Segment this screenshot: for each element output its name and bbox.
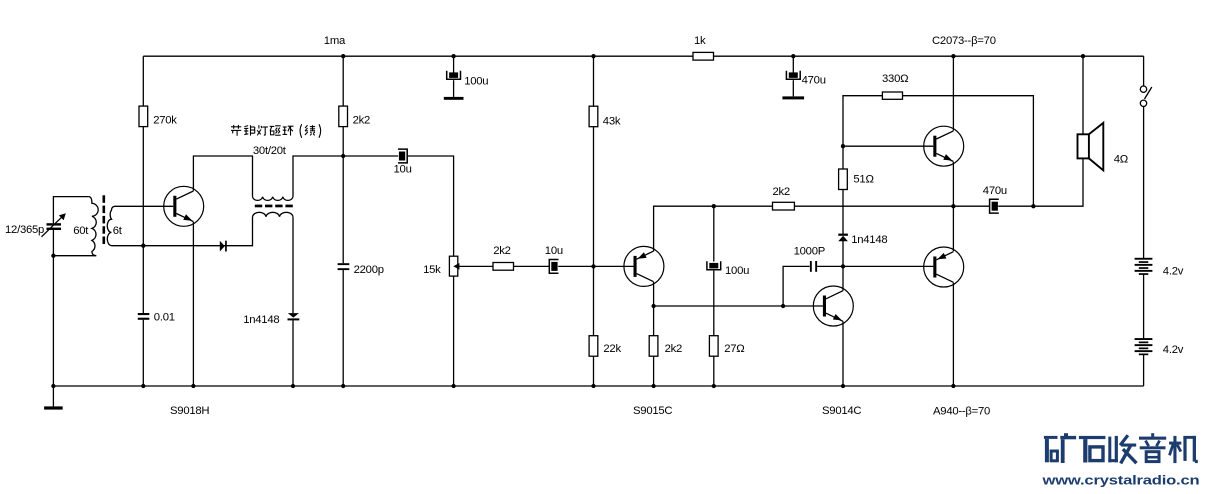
resistor 2k2 (wiper) (493, 263, 514, 271)
wire 51ohm / 1n4148 branch (842, 146, 844, 266)
node top rail / 470u (791, 54, 795, 58)
svg-text:0.01: 0.01 (154, 311, 175, 323)
inductor 6t secondary coil (107, 206, 115, 245)
wire between batteries (1143, 275, 1145, 339)
wire 330ohm feedback loop (843, 96, 1033, 207)
battery 4.2v (upper) (1135, 258, 1153, 275)
inductor 20t winding (253, 212, 294, 216)
wire S9015C emitter / 2k2 line to output node (654, 206, 990, 251)
label 1k (694, 35, 706, 47)
wire A940 base (843, 265, 933, 267)
node ground rail / S9014C emitter (841, 384, 845, 388)
wire S9014C collector up (842, 266, 844, 290)
node ground rail / 15k (451, 384, 455, 388)
label 15k (423, 264, 441, 276)
wire tank bottom loop (53, 255, 96, 257)
node driver line / 100u bypass (712, 204, 716, 208)
wire secondary bottom line (112, 217, 253, 246)
svg-text:2k2: 2k2 (353, 115, 370, 127)
node ground rail / 27ohm (712, 384, 716, 388)
node 2k2 / 10u line (341, 154, 345, 158)
wire 15k pot bottom (453, 276, 455, 386)
label 270k (153, 115, 177, 127)
svg-text:10u: 10u (394, 163, 412, 175)
wire emitter node line to S9014C base (654, 305, 823, 307)
wire 1000P branch (783, 266, 843, 306)
wire battery to bottom rail (1143, 355, 1145, 386)
wire 10u out to node (558, 265, 593, 267)
label 470u (983, 185, 1007, 197)
wire 2k2 branch / 2200p branch (342, 56, 344, 386)
resistor 330ohm (882, 92, 902, 99)
label 470u (802, 74, 826, 86)
wire 470u output to speaker (998, 158, 1083, 206)
ground symbol (main) (44, 406, 63, 409)
wire secondary top to base (115, 205, 174, 207)
label 2200p (354, 264, 384, 276)
label 4.2v (1163, 344, 1184, 356)
capacitor 0.01 (138, 313, 150, 320)
resistor 22k (589, 336, 598, 357)
watermark url (1041, 474, 1199, 488)
svg-text:270k: 270k (153, 115, 177, 127)
node ground rail / 2k2 (651, 384, 655, 388)
wire A940 collector to ground rail (952, 283, 954, 386)
label 2k2 (665, 343, 682, 355)
node 470u / 330ohm (1031, 204, 1035, 208)
svg-text:C2073--β=70: C2073--β=70 (932, 35, 996, 47)
capacitor 1000P (810, 261, 817, 272)
label 0.01 (154, 311, 175, 323)
capacitor 2200p (338, 263, 350, 270)
wire 15k wiper to 10u (457, 265, 549, 267)
svg-text:www.crystalradio.cn: www.crystalradio.cn (1041, 474, 1199, 488)
capacitor 10u (coupling) (398, 149, 407, 163)
svg-text:2k2: 2k2 (493, 245, 510, 257)
node ground rail / 2200p (341, 384, 345, 388)
svg-text:470u: 470u (983, 185, 1007, 197)
svg-text:A940--β=70: A940--β=70 (933, 405, 990, 417)
node 51ohm / C2073 base (841, 144, 845, 148)
svg-text:10u: 10u (545, 245, 563, 257)
node 43k / 22k / S9015C base (591, 264, 595, 268)
wire speaker to top rail (1082, 56, 1084, 134)
node top rail / 43k (591, 54, 595, 58)
ground symbol (100u) (444, 97, 464, 100)
node S9015C collector / 2k2 (651, 304, 655, 308)
svg-text:1n4148: 1n4148 (243, 314, 279, 326)
wire S9015C base (594, 265, 634, 267)
label 6t (113, 225, 123, 237)
wire S9018H collector to transformer (193, 156, 252, 197)
speaker 4ohm (1078, 123, 1104, 170)
wire A940 emitter to output node (952, 206, 954, 251)
resistor 1k (693, 52, 714, 60)
wire tank circuit top (53, 197, 88, 224)
wire 10u to 15k pot top (408, 156, 454, 256)
wire bottom ground rail (53, 385, 1143, 387)
ground symbol (470u) (782, 96, 804, 99)
svg-text:1k: 1k (694, 35, 706, 47)
wire C2073 base (843, 145, 933, 147)
svg-text:2k2: 2k2 (773, 186, 790, 198)
svg-text:4Ω: 4Ω (1114, 154, 1128, 166)
svg-text:470u: 470u (802, 74, 826, 86)
node S9014C base / 1000P (781, 304, 785, 308)
svg-text:2k2: 2k2 (665, 343, 682, 355)
svg-text:1ma: 1ma (324, 35, 346, 47)
label 2k2 (493, 245, 510, 257)
wire 2k2 emitter resistor branch (653, 306, 655, 386)
node tank bottom (51, 254, 55, 258)
node top rail / C2073 collector (951, 54, 955, 58)
svg-text:12/365p: 12/365p (5, 224, 44, 236)
label 4.2v (1163, 266, 1184, 278)
transistor A940 (924, 247, 964, 287)
wire C2073 collector to rail (952, 56, 954, 131)
node top rail / 2k2 (341, 54, 345, 58)
transformer core (antenna coil) (103, 195, 106, 244)
label 12/365p (5, 224, 44, 236)
wire 1n4148 branch (transformer) (292, 217, 294, 386)
label 27ohm (724, 343, 744, 355)
wire left column 270k/0.01 branch (142, 56, 144, 386)
svg-text:S9015C: S9015C (633, 405, 672, 417)
svg-text:30t/20t: 30t/20t (253, 145, 287, 157)
label 100u (464, 75, 488, 87)
label 2k2 (773, 186, 790, 198)
inductor 60t primary coil (89, 197, 98, 256)
wire ground stub (52, 386, 54, 406)
node ground rail / S9018H emitter (191, 384, 195, 388)
label 1n4148 (243, 314, 279, 326)
svg-text:1000P: 1000P (794, 246, 825, 258)
watermark logo (crystal radio) (1044, 433, 1198, 463)
wire switch/battery branch (1143, 56, 1145, 258)
svg-text:330Ω: 330Ω (882, 73, 908, 85)
resistor 43k (589, 106, 598, 127)
label 1n4148 (851, 234, 887, 246)
resistor 27ohm (709, 336, 718, 357)
node top rail / speaker (1081, 54, 1085, 58)
label 4ohm (1114, 154, 1128, 166)
wire C2073 emitter to output node (952, 162, 954, 206)
svg-text:43k: 43k (603, 115, 621, 127)
svg-text:1n4148: 1n4148 (851, 234, 887, 246)
node output emitters (951, 204, 955, 208)
svg-text:15k: 15k (423, 264, 441, 276)
label S9014C (822, 405, 861, 417)
node top rail / 100u (451, 54, 455, 58)
transistor S9018H (164, 186, 204, 226)
svg-text:6t: 6t (113, 225, 123, 237)
svg-text:51Ω: 51Ω (853, 174, 873, 186)
wire 22k branch (593, 266, 595, 386)
svg-text:S9018H: S9018H (170, 405, 209, 417)
label 10u (545, 245, 563, 257)
svg-text:27Ω: 27Ω (724, 343, 744, 355)
wire 43k branch (593, 56, 595, 266)
wire S9018H emitter down (192, 222, 194, 386)
svg-text:100u: 100u (725, 265, 749, 277)
label 51ohm (853, 174, 873, 186)
label A940--beta=70 (933, 405, 990, 417)
capacitor 470u (decoupling) (786, 71, 800, 80)
variable capacitor 12/365p (42, 213, 66, 237)
label: energy-saving lamp magnetic ring (green) (231, 124, 321, 138)
diode (detector) (220, 241, 227, 252)
capacitor 10u (to base) (549, 260, 558, 274)
diode 1n4148 (left) (288, 313, 300, 320)
node 1n4148 / A940 base / S9014C collector (841, 264, 845, 268)
label 1ma (324, 35, 346, 47)
wire transformer upper right to 10u line (293, 156, 398, 197)
wire S9014C emitter down (842, 321, 844, 386)
capacitor 100u (decoupling) (447, 71, 461, 80)
label S9015C (633, 405, 672, 417)
resistor 2k2 (from rail) (339, 106, 348, 127)
wire S9015C collector down (653, 282, 655, 306)
svg-text:S9014C: S9014C (822, 405, 861, 417)
wire 470u decoupling stub (792, 56, 794, 96)
label 330ohm (882, 73, 908, 85)
label C2073--beta=70 (932, 35, 996, 47)
switch (1140, 86, 1152, 107)
svg-text:2200p: 2200p (354, 264, 384, 276)
transistor C2073 (924, 126, 964, 166)
capacitor 470u (output) (990, 199, 999, 213)
label S9018H (170, 405, 209, 417)
label 100u (725, 265, 749, 277)
node ground rail / 22k (591, 384, 595, 388)
wire tank circuit left down (52, 230, 54, 386)
svg-text:4.2v: 4.2v (1163, 266, 1184, 278)
svg-text:60t: 60t (73, 225, 89, 237)
label 2k2 (353, 115, 370, 127)
node ground rail / A940 collector (951, 384, 955, 388)
svg-text:22k: 22k (603, 343, 621, 355)
potentiometer 15k (449, 256, 459, 276)
label 43k (603, 115, 621, 127)
inductor 30t winding (253, 197, 293, 201)
resistor 51ohm (839, 169, 848, 190)
wire top supply rail (143, 55, 1143, 57)
label 60t (73, 225, 89, 237)
svg-text:4.2v: 4.2v (1163, 344, 1184, 356)
node ground rail / 1n4148 (291, 384, 295, 388)
transistor S9015C (624, 246, 664, 286)
wire 100u decoupling stub (453, 56, 455, 97)
svg-text:100u: 100u (464, 75, 488, 87)
capacitor 100u (bypass) (707, 261, 721, 270)
node ground rail / tank (51, 384, 55, 388)
node ground rail / 0.01 (141, 384, 145, 388)
diode 1n4148 (bias) (838, 234, 848, 242)
node 270k / 0.01 / detector line (141, 244, 145, 248)
resistor 2k2 (driver line) (773, 202, 795, 210)
transformer core (lamp ring) (255, 205, 293, 208)
resistor 2k2 (S9015C collector) (649, 336, 658, 357)
battery 4.2v (lower) (1135, 338, 1153, 355)
label 10u (394, 163, 412, 175)
resistor 270k (139, 106, 148, 127)
label 1000P (794, 246, 825, 258)
label 22k (603, 343, 621, 355)
wire 100u/27ohm branch (713, 206, 715, 386)
transistor S9014C (813, 286, 853, 326)
label 30t/20t (253, 145, 287, 157)
